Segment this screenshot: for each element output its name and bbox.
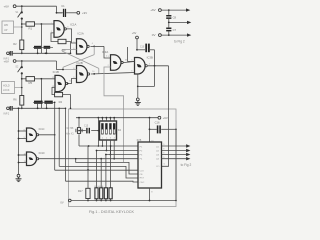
junction code line 4	[100, 158, 102, 160]
svg-text:+6V: +6V	[163, 116, 168, 120]
svg-text:0V: 0V	[152, 33, 156, 37]
junction 0V out	[168, 34, 170, 36]
junction crystal leg	[78, 117, 80, 119]
junctions caps ch1	[37, 52, 39, 54]
svg-text:WD: WD	[4, 24, 8, 27]
wires resistor network to 0V rail	[96, 199, 98, 201]
op gate IC3A	[111, 55, 122, 71]
ground terminal left	[17, 174, 20, 177]
wire R14 up	[100, 159, 102, 188]
wire IC1B output to IC2B input 2	[68, 79, 77, 84]
capacitor C2 (dark)	[34, 46, 41, 49]
op gate IC1A	[54, 21, 64, 38]
svg-text:IC3A: IC3A	[102, 50, 108, 54]
junction R5 wire	[41, 78, 43, 80]
wire IC2A out corner to IC3A input 1	[104, 46, 111, 58]
svg-text:C1: C1	[61, 4, 65, 8]
svg-text:C10: C10	[140, 46, 145, 48]
svg-text:S3: S3	[118, 128, 122, 132]
wire C10 to latch output	[150, 49, 155, 51]
wire R13 up	[96, 151, 98, 188]
svg-text:R6: R6	[13, 98, 17, 102]
junction osc right leg	[98, 117, 100, 119]
capacitor C16	[157, 125, 159, 133]
resistor network R15	[104, 188, 107, 199]
svg-text:9: 9	[163, 153, 164, 155]
junction node B	[21, 78, 23, 80]
ground terminal below IC3B	[136, 98, 139, 101]
svg-text:IC1B: IC1B	[53, 70, 59, 74]
wire +6V mid rail	[133, 117, 158, 119]
wire IC1A input 2 via R3	[51, 33, 58, 42]
svg-text:+6V: +6V	[150, 8, 155, 12]
wire caps line ch1	[33, 46, 53, 48]
wire IC2A output	[90, 45, 104, 47]
svg-text:5: 5	[73, 41, 74, 43]
junction input line 2	[21, 107, 23, 109]
svg-text:9: 9	[163, 157, 164, 159]
wire +6V rail ch2	[16, 60, 57, 62]
op gate IC2A	[77, 39, 88, 54]
junction ch2 rail	[21, 60, 23, 62]
wire input line 1	[13, 52, 71, 54]
terminal +9V	[77, 11, 80, 14]
wire R1 to IC1A input 1	[35, 23, 55, 25]
latch cross wire 1 (IC2A out to IC2B in)	[93, 46, 95, 54]
wire code line 2	[97, 150, 139, 152]
svg-text:CLK: CLK	[140, 170, 145, 172]
resistor R17	[86, 188, 90, 198]
svg-text:+9V: +9V	[82, 11, 87, 15]
wire 0V out	[161, 34, 187, 36]
wire +6V rail top	[16, 5, 57, 7]
capacitor C3 (dark)	[44, 46, 51, 49]
wire node B to R5	[22, 78, 26, 80]
svg-text:CO: CO	[156, 166, 160, 168]
wire route B to IC5	[59, 166, 138, 178]
wire input bus left	[18, 108, 20, 174]
wires IC1C inputs	[19, 130, 27, 132]
junction IC2B output	[93, 73, 95, 75]
input terminal 2 with capacitor	[7, 107, 10, 110]
wires IC1D inputs	[19, 154, 27, 156]
wires DIP bottom pins to code lines	[101, 140, 103, 146]
wire IC3B input 1	[128, 61, 135, 63]
svg-text:+6V: +6V	[4, 59, 9, 63]
wire IC1B input 2 via R4	[52, 87, 55, 94]
wire osc right leg	[97, 118, 99, 146]
wire switch S2 down	[21, 73, 23, 95]
wire code line 4 from IC1D	[39, 158, 138, 160]
svg-text:kHz X1: kHz X1	[66, 134, 74, 136]
junction +6V out	[168, 9, 170, 11]
junction top rail	[21, 5, 23, 7]
op gate IC1D	[27, 152, 37, 166]
svg-text:32.768: 32.768	[66, 128, 74, 130]
svg-text:11: 11	[69, 80, 71, 82]
junction IC3B output	[154, 65, 156, 67]
junction C16 tap	[149, 128, 151, 130]
svg-text:IC2A: IC2A	[78, 31, 84, 35]
wire IC3B output down to IC5 pin 5	[162, 66, 169, 167]
svg-text:R2: R2	[13, 42, 17, 46]
svg-text:C16: C16	[155, 121, 160, 125]
svg-text:9: 9	[73, 77, 74, 79]
wire C16 to 0V line	[161, 128, 176, 130]
svg-text:to Fig 2: to Fig 2	[181, 163, 192, 167]
junction R17 tap	[88, 145, 90, 147]
wire IC1D output	[38, 158, 40, 160]
box S2 function label HOLD-LOCK	[2, 82, 15, 94]
svg-text:2: 2	[108, 65, 109, 67]
wire from terminal to C10 line	[136, 39, 138, 50]
wire mid rail out	[168, 19, 170, 23]
svg-text:4: 4	[92, 43, 93, 45]
wire R4 right down	[63, 95, 71, 109]
op gate IC2B	[77, 66, 88, 83]
wire caps line ch2	[33, 101, 55, 103]
resistor R6	[20, 96, 24, 106]
svg-text:6: 6	[131, 71, 132, 73]
wire route C vertical	[65, 108, 67, 181]
resistor network R13	[95, 188, 98, 199]
wire crystal leg	[78, 118, 80, 127]
wire code line 3	[106, 154, 138, 156]
input terminal 1 with capacitor	[7, 52, 10, 55]
junction IC2A output	[93, 46, 95, 48]
IC5 output pins right	[162, 145, 187, 147]
wire C1 to terminal	[66, 12, 77, 14]
op gate IC1B	[55, 75, 66, 91]
junction input line 1	[21, 52, 23, 54]
svg-text:R13-R16: R13-R16	[95, 186, 105, 188]
svg-text:8: 8	[73, 68, 74, 70]
arrow +6V to Fig2	[186, 8, 190, 11]
svg-text:3: 3	[67, 27, 68, 29]
svg-text:5: 5	[131, 60, 132, 62]
svg-text:9: 9	[163, 144, 164, 146]
wire C16 left	[150, 128, 157, 130]
capacitor C1	[56, 12, 63, 14]
wire R6 to input line 2	[21, 105, 23, 108]
svg-text:R4: R4	[59, 100, 63, 104]
capacitor C10	[145, 44, 147, 53]
wire R17 vertical	[87, 146, 89, 188]
wire R17 bottom	[87, 199, 89, 201]
svg-text:to Fig 2: to Fig 2	[174, 39, 185, 43]
svg-text:IC1A: IC1A	[70, 23, 76, 27]
svg-text:IC1D: IC1D	[39, 151, 45, 155]
IC U5 body	[138, 142, 162, 188]
svg-text:6: 6	[73, 48, 74, 50]
svg-text:0V: 0V	[60, 201, 63, 205]
svg-text:9: 9	[24, 137, 25, 139]
wire oscillator rail	[76, 117, 133, 119]
wire code line 1	[79, 145, 138, 147]
wire IC3B output	[148, 65, 169, 67]
svg-text:RST: RST	[140, 177, 145, 179]
svg-text:OSC: OSC	[140, 182, 145, 184]
DIP switch S3	[100, 121, 117, 140]
svg-text:R5: R5	[28, 81, 32, 85]
box S1 function label WD-UP	[2, 21, 14, 34]
wire 0V bottom rail	[71, 200, 176, 202]
svg-text:13: 13	[52, 86, 54, 88]
latch cross wire 2 (IC2B out to IC2A in)	[62, 51, 99, 68]
wires DIP top pins	[101, 118, 103, 121]
svg-text:12: 12	[24, 153, 26, 155]
svg-text:+6V: +6V	[4, 5, 9, 9]
wire IC1A output to IC2A input 1	[66, 29, 76, 43]
svg-text:9: 9	[163, 149, 164, 151]
switch S2	[21, 61, 23, 66]
svg-text:13: 13	[24, 161, 26, 163]
op gate IC3B	[135, 58, 146, 75]
svg-text:1: 1	[51, 23, 52, 25]
svg-text:R1: R1	[28, 26, 32, 30]
crystal X1	[77, 128, 80, 134]
wire node A to R1	[22, 23, 26, 25]
capacitor C6 (dark)	[44, 101, 52, 104]
wire +6V to IC5 pin 16	[149, 118, 151, 142]
svg-text:IC1C: IC1C	[39, 127, 45, 131]
IC5 bottom pin 8	[149, 188, 151, 201]
capacitor C7	[168, 22, 170, 27]
svg-text:INP.2: INP.2	[4, 113, 10, 116]
wire route B vertical	[58, 108, 60, 166]
wire route C to IC5	[66, 180, 139, 183]
resistor R5	[26, 77, 35, 81]
switch S1	[21, 6, 23, 11]
capacitor C15 trimmer	[86, 128, 87, 134]
wire trimmer link	[79, 130, 86, 132]
svg-text:4: 4	[149, 63, 150, 65]
resistor R4	[55, 92, 63, 96]
arrow mid to Fig2	[187, 21, 191, 24]
svg-text:1: 1	[108, 56, 109, 58]
arrow 0V to Fig2	[187, 33, 191, 36]
resistor R2	[20, 40, 24, 50]
wire R5 to IC1B input 1	[35, 78, 56, 80]
wire route D nested corner	[76, 159, 138, 174]
svg-text:UP: UP	[4, 29, 8, 32]
resistor R1	[26, 22, 35, 26]
wire C10 line	[137, 49, 145, 51]
wire vertical to caps line	[40, 24, 42, 53]
capacitor C5 (dark)	[34, 101, 43, 104]
junctions caps ch2	[37, 107, 39, 109]
op gate IC1C	[27, 128, 37, 142]
svg-text:+6V: +6V	[132, 32, 137, 35]
junction +6V mid	[149, 117, 151, 119]
svg-text:10: 10	[92, 71, 94, 73]
svg-text:IC3B: IC3B	[147, 55, 153, 59]
svg-text:Fig.1 - DIGITAL KEYLOCK: Fig.1 - DIGITAL KEYLOCK	[89, 210, 134, 214]
wire R16 up	[110, 146, 112, 188]
svg-text:LOCK: LOCK	[3, 89, 10, 92]
svg-text:2: 2	[51, 31, 52, 33]
wire vertical ch2 to caps line	[40, 79, 42, 109]
wire IC1C output	[38, 134, 55, 136]
svg-text:12: 12	[52, 77, 54, 79]
svg-text:C15: C15	[84, 125, 89, 127]
arrows outputs to Fig2	[186, 144, 190, 147]
svg-text:HOLD: HOLD	[3, 85, 10, 88]
wire IC3A output to IC3B input 1	[123, 62, 134, 63]
wire +6V out	[161, 9, 186, 11]
wire R2 to input line	[21, 50, 23, 54]
frame box (application box outline)	[69, 109, 177, 207]
svg-text:R17: R17	[78, 190, 83, 193]
svg-text:CE: CE	[140, 174, 144, 176]
wire 0V up right side	[175, 129, 177, 200]
svg-text:IC5: IC5	[137, 138, 142, 142]
node +6V terminal mid	[158, 116, 161, 119]
resistor network R16	[109, 188, 112, 199]
svg-text:C8: C8	[173, 16, 177, 20]
resistor R3	[58, 39, 66, 43]
wire R3 right down	[66, 42, 71, 54]
wire R15 up	[105, 155, 107, 188]
wire IC2B output to IC3B input	[91, 73, 135, 75]
svg-text:C7: C7	[173, 28, 177, 32]
wire switch to node A	[21, 19, 23, 40]
resistor network R14	[100, 188, 103, 199]
wire route A vertical	[54, 102, 56, 170]
wire input line 2	[13, 107, 66, 109]
wire route A to IC5	[55, 169, 138, 171]
svg-text:3: 3	[125, 59, 126, 61]
capacitor C8	[168, 10, 170, 15]
svg-text:8: 8	[24, 129, 25, 131]
junction node A	[21, 23, 23, 25]
wire IC3B bottom feedback	[137, 74, 139, 98]
wire IC3A input 2 feedback	[104, 67, 124, 162]
junction R1 wire	[41, 23, 43, 25]
